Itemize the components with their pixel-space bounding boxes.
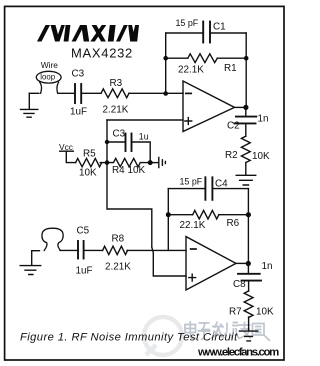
resistor R2 10K xyxy=(241,136,250,162)
svg-text:www.elecfans.com: www.elecfans.com xyxy=(197,347,279,359)
wire bias rail crossing jog to U2 non-inverting input xyxy=(152,247,186,276)
U1 plus sign xyxy=(185,118,192,125)
wire to bias ground xyxy=(150,162,158,164)
op-amp U2 xyxy=(186,237,236,290)
wire loop antenna (stage 1) xyxy=(36,71,61,83)
svg-text:1n: 1n xyxy=(258,114,269,125)
ground (below R7) xyxy=(239,331,257,341)
svg-text:10K: 10K xyxy=(252,151,270,162)
wire to R6 xyxy=(168,214,192,216)
svg-text:22.1K: 22.1K xyxy=(180,220,206,231)
svg-text:R8: R8 xyxy=(112,234,125,245)
svg-text:1n: 1n xyxy=(262,261,273,272)
wire feedback left rail (U1) xyxy=(165,33,167,93)
wire R5 to bias node xyxy=(100,162,107,164)
svg-text:C4: C4 xyxy=(215,179,228,190)
svg-text:10K: 10K xyxy=(79,168,97,179)
svg-text:15 pF: 15 pF xyxy=(176,18,199,28)
svg-text:C3: C3 xyxy=(72,69,85,80)
resistor R7 10K xyxy=(244,291,253,317)
node bias R4-R5 junction xyxy=(105,160,110,165)
svg-text:15 pF: 15 pF xyxy=(180,177,203,187)
svg-text:C1: C1 xyxy=(213,22,226,33)
svg-text:10K: 10K xyxy=(256,307,274,318)
svg-text:1uF: 1uF xyxy=(70,107,87,118)
ground (stage 1 input) xyxy=(28,93,30,109)
wire R2 to ground xyxy=(245,163,247,175)
svg-text:R2: R2 xyxy=(225,150,238,161)
wire U2 output xyxy=(236,262,248,264)
wire loop 2 to C5 xyxy=(60,249,77,251)
capacitor C5 xyxy=(77,241,79,259)
U2 minus sign xyxy=(191,248,196,250)
wire bias to U1 non-inverting input xyxy=(107,119,183,121)
capacitor C4 15pF xyxy=(204,177,206,200)
wire C3 to R3 xyxy=(82,92,101,94)
wire U1 output to C2 xyxy=(245,107,247,115)
wire ground to loop xyxy=(29,92,39,94)
node U1 output junction xyxy=(243,105,248,110)
resistor R5 10K xyxy=(76,158,102,166)
svg-text:C8: C8 xyxy=(233,279,246,290)
wire feedback top (U1) xyxy=(166,32,247,34)
node bias ground junction xyxy=(148,160,153,165)
svg-text:C3: C3 xyxy=(113,129,126,140)
svg-text:1uF: 1uF xyxy=(76,266,93,277)
wire R6 to right rail xyxy=(219,214,249,216)
svg-text:Figure 1. RF Noise Immunity Te: Figure 1. RF Noise Immunity Test Circuit xyxy=(20,332,238,344)
capacitor C3 1u xyxy=(125,134,127,152)
wire R7 to ground xyxy=(248,317,250,331)
svg-text:C5: C5 xyxy=(77,226,90,237)
U1 minus sign xyxy=(186,92,191,94)
svg-text:Wire: Wire xyxy=(41,60,59,70)
svg-text:MAX4232: MAX4232 xyxy=(71,46,133,61)
svg-text:R6: R6 xyxy=(227,218,240,229)
wire U2 output to C8 xyxy=(247,263,249,273)
capacitor C3 xyxy=(74,84,76,103)
ground (bias, sideways) xyxy=(159,157,166,167)
watermark elecfans circle logo xyxy=(144,317,182,355)
resistor R6 22.1K xyxy=(193,210,219,219)
wire R8 to U2 inverting input xyxy=(127,249,186,251)
wire feedback top (U2) xyxy=(168,188,248,190)
svg-text:loop: loop xyxy=(40,73,55,82)
resistor R3 xyxy=(101,89,129,98)
wire loop antenna (stage 2) xyxy=(42,228,63,250)
svg-text:R5: R5 xyxy=(83,149,96,160)
node R6 left junction xyxy=(166,212,171,217)
MAXIM logo xyxy=(37,25,139,42)
svg-text:10K: 10K xyxy=(128,165,146,176)
op-amp U1 xyxy=(183,81,235,132)
svg-text:R3: R3 xyxy=(110,78,123,89)
ground (below R2) xyxy=(236,175,256,185)
wire Vcc to R5 xyxy=(66,151,75,162)
wire feedback left rail (U2) xyxy=(167,189,169,251)
U2 plus sign xyxy=(189,274,196,281)
svg-text:2.21K: 2.21K xyxy=(103,105,129,116)
wire C8 to R7 xyxy=(248,281,250,291)
svg-text:1u: 1u xyxy=(139,132,149,142)
wire to R1 xyxy=(166,57,188,59)
node U2 output junction xyxy=(246,261,251,266)
wire C5 to R8 xyxy=(85,249,103,251)
wire feedback right rail (U2) xyxy=(247,189,249,264)
svg-text:R7: R7 xyxy=(229,307,242,318)
node U1 inverting input junction xyxy=(163,91,168,96)
wire R3 to U1 inverting input xyxy=(129,92,183,94)
resistor R8 xyxy=(103,246,128,254)
svg-text:2.21K: 2.21K xyxy=(105,262,131,273)
watermark text dianzifashaoyou xyxy=(185,321,270,341)
wire bias node to C3 1u xyxy=(107,142,150,163)
Vcc terminal xyxy=(60,150,74,152)
svg-text:22.1K: 22.1K xyxy=(178,65,204,76)
wire loop to C3 xyxy=(58,92,74,94)
wire C2 to R2 xyxy=(245,124,247,136)
node R6 right junction xyxy=(246,212,251,217)
wire R1 to right rail xyxy=(217,57,246,59)
resistor R1 22.1K xyxy=(188,54,217,63)
resistor R4 10K xyxy=(107,158,151,166)
svg-text:Vcc: Vcc xyxy=(59,142,73,152)
capacitor C2 1n xyxy=(236,116,256,118)
svg-text:C2: C2 xyxy=(227,121,240,132)
ground (stage 2 input) xyxy=(31,251,33,265)
wire feedback right rail (U1) xyxy=(245,33,247,107)
wire U1 output xyxy=(235,106,247,108)
svg-text:R4: R4 xyxy=(112,165,125,176)
node R1 right junction xyxy=(244,56,249,61)
node R1 left junction xyxy=(163,56,168,61)
node bias C3 junction xyxy=(105,140,109,144)
capacitor C1 15pF xyxy=(202,22,204,43)
wire bias rail xyxy=(107,120,152,247)
svg-text:R1: R1 xyxy=(224,63,237,74)
capacitor C8 1n xyxy=(238,273,260,275)
wire ground to loop 2 xyxy=(32,250,40,252)
